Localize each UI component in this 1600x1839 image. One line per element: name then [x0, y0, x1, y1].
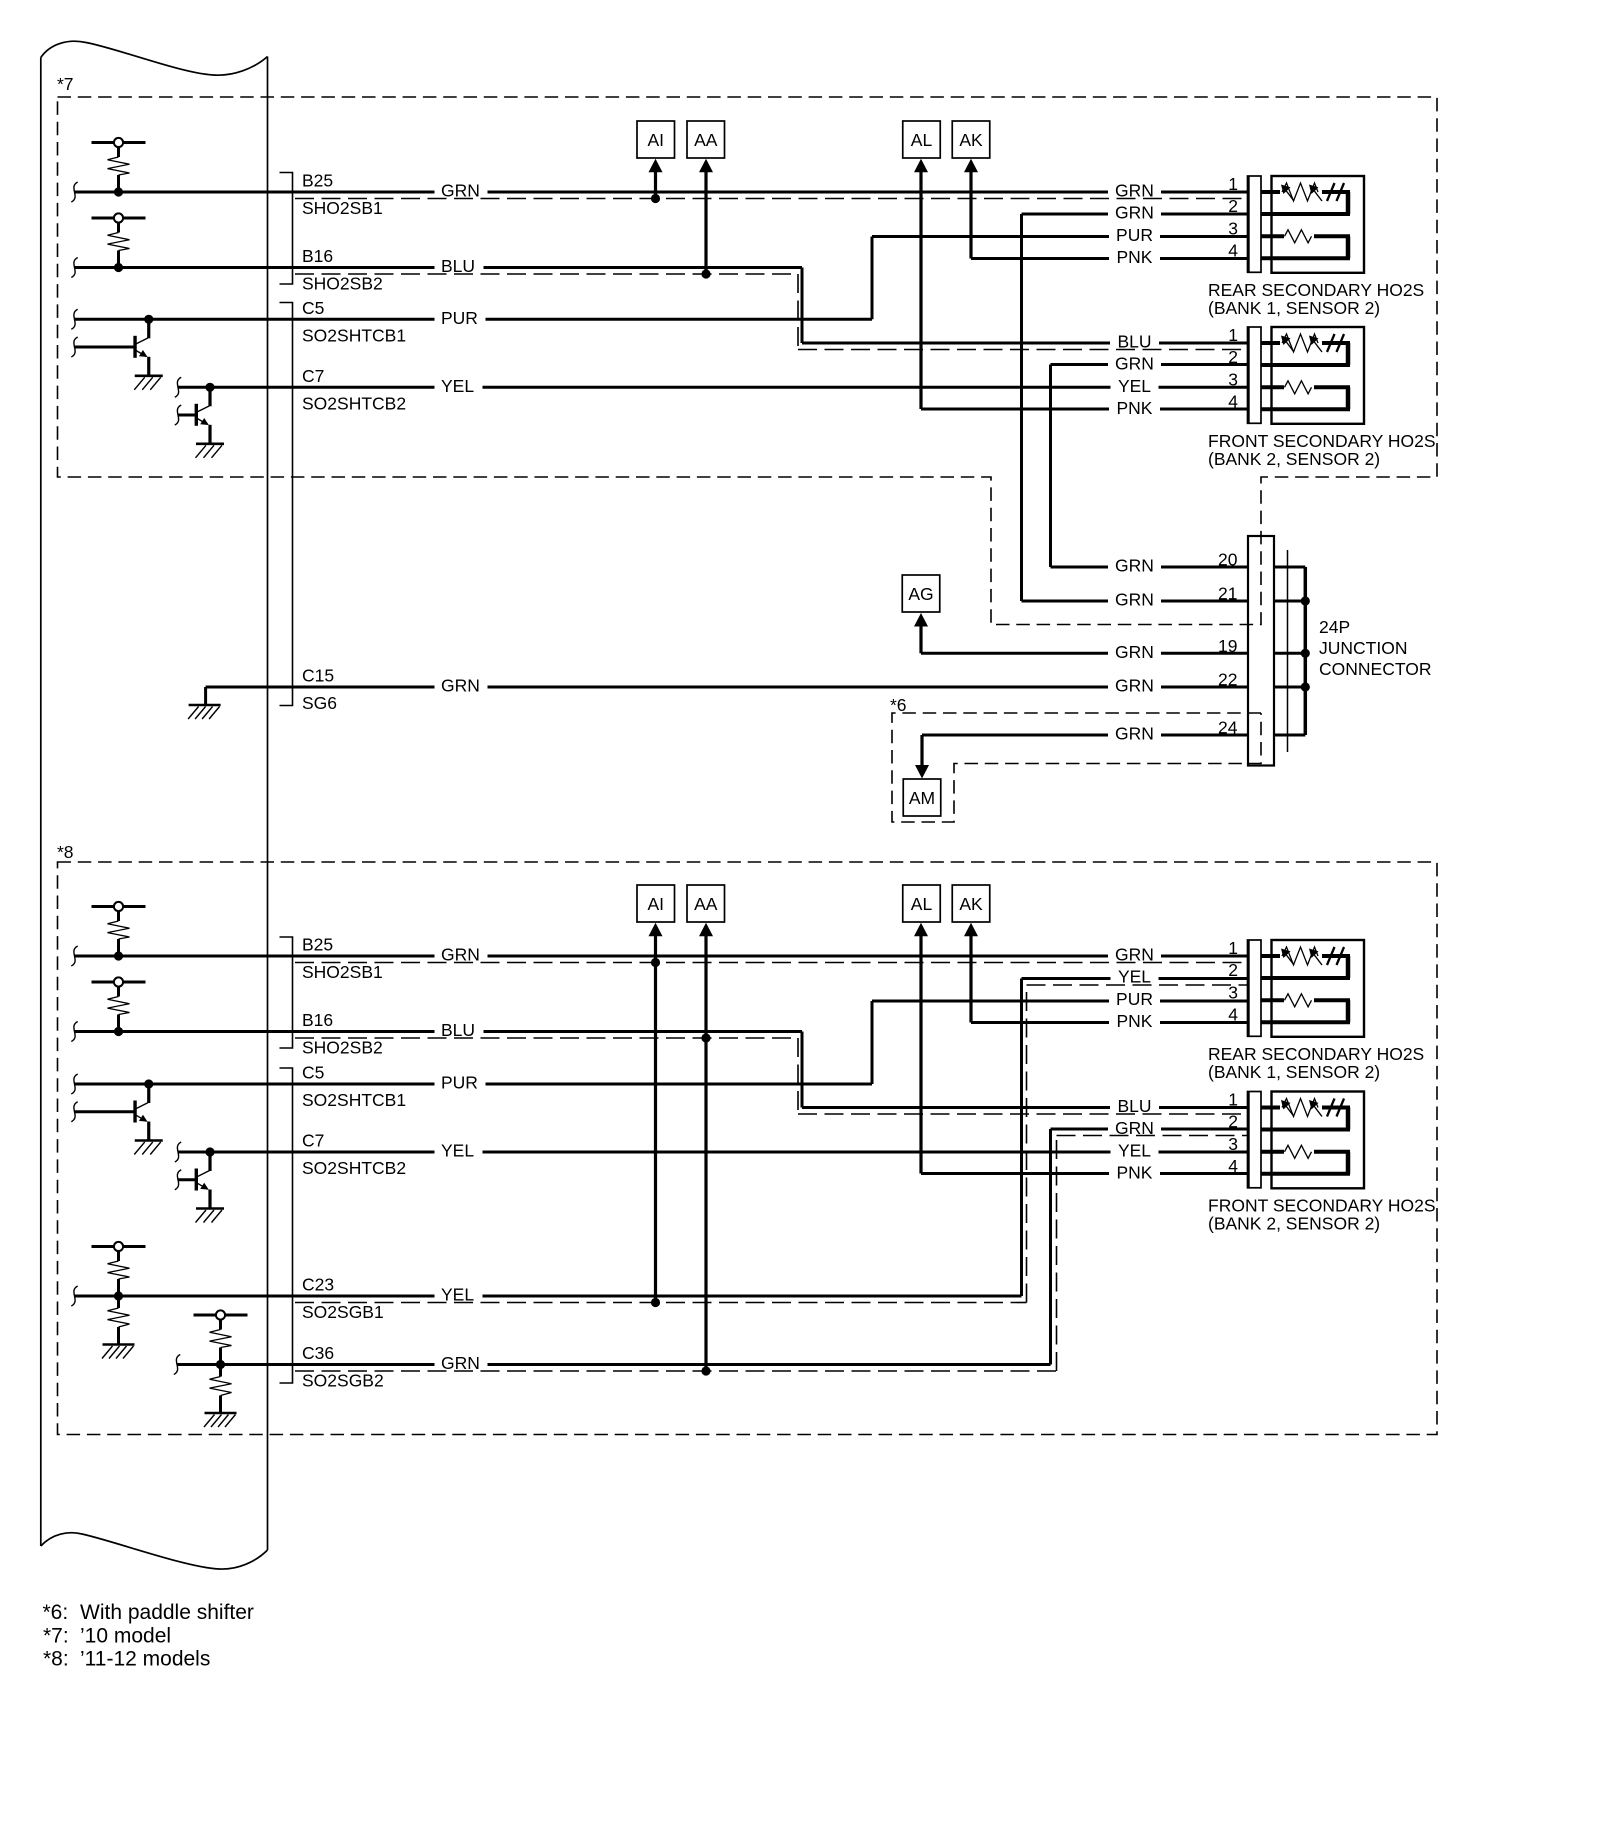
arrow AI from GRN shield: [649, 159, 663, 203]
svg-text:PNK: PNK: [1117, 1162, 1153, 1182]
svg-text:PUR: PUR: [441, 1073, 478, 1093]
footnote *7: [43, 1625, 171, 1648]
wire rear HO2S pin2 GRN to junction pin 21: [1022, 214, 1248, 601]
24P junction connector body: [1248, 536, 1288, 766]
svg-text:With paddle shifter: With paddle shifter: [80, 1601, 254, 1624]
svg-text:YEL: YEL: [441, 1141, 474, 1161]
svg-text:4: 4: [1228, 1156, 1238, 1176]
svg-text:SHO2SB1: SHO2SB1: [302, 198, 383, 218]
arrow AG from junction pin 19: [914, 613, 928, 653]
svg-text:24: 24: [1218, 718, 1238, 738]
pin B25 / SHO2SB1 *8: [302, 935, 383, 983]
svg-text:SO2SHTCB2: SO2SHTCB2: [302, 1158, 406, 1178]
svg-text:2: 2: [1228, 1112, 1238, 1132]
svg-text:AA: AA: [694, 130, 718, 150]
svg-text:GRN: GRN: [1115, 676, 1154, 696]
front secondary HO2S (bank2 sensor2) '10: [1108, 325, 1436, 469]
svg-text:1: 1: [1228, 174, 1238, 194]
svg-text:PUR: PUR: [441, 308, 478, 328]
svg-text:(BANK 2, SENSOR 2): (BANK 2, SENSOR 2): [1208, 1213, 1380, 1233]
svg-text:YEL: YEL: [441, 1285, 474, 1305]
shield (dashed) of C23 YEL wire: [295, 985, 1247, 1303]
svg-text:YEL: YEL: [441, 376, 474, 396]
label PUR on C5 wire: [435, 308, 486, 328]
junction node pin22: [1301, 682, 1310, 691]
arrow box AI: [637, 121, 675, 158]
label GRN on B25 wire *8: [435, 945, 488, 965]
arrow AL from front HO2S pin4 PNK *8: [914, 923, 1247, 1174]
ECU connector bracket C *8: [280, 1068, 293, 1383]
svg-text:SO2SHTCB1: SO2SHTCB1: [302, 1090, 406, 1110]
pull-up/pull-down divider at C23: [92, 1242, 146, 1359]
svg-text:24P: 24P: [1319, 617, 1350, 637]
svg-text:BLU: BLU: [1117, 332, 1151, 352]
junction node pin19: [1301, 649, 1310, 658]
wire front HO2S pin2 GRN to junction pin 20: [1051, 365, 1248, 568]
wire break squiggle B25 *8: [71, 946, 77, 966]
pull-up resistor to B16 (SHO2SB2): [92, 213, 146, 272]
svg-text:BLU: BLU: [441, 1020, 475, 1040]
junction stub pin 19: [1274, 652, 1305, 655]
svg-text:C7: C7: [302, 1131, 324, 1151]
svg-text:SHO2SB1: SHO2SB1: [302, 962, 383, 982]
svg-text:GRN: GRN: [1115, 181, 1154, 201]
svg-text:GRN: GRN: [441, 1353, 480, 1373]
dashed box *7 ('10 model): [58, 97, 1438, 625]
svg-text:C5: C5: [302, 298, 324, 318]
footnote *8: [43, 1648, 210, 1671]
pin C36 / SO2SGB2: [302, 1343, 384, 1391]
svg-text:AL: AL: [911, 130, 933, 150]
junction node pin21: [1301, 596, 1310, 605]
arrow AL from front HO2S pin4 PNK: [914, 159, 1247, 409]
label *7: [57, 74, 74, 94]
svg-text:’11-12 models: ’11-12 models: [80, 1648, 210, 1671]
svg-text:YEL: YEL: [1118, 1140, 1151, 1160]
arrow AM from junction pin 24: [915, 735, 929, 779]
svg-text:AI: AI: [647, 130, 664, 150]
pull-up resistor to B16 *8: [92, 977, 146, 1036]
svg-text:4: 4: [1228, 241, 1238, 261]
svg-text:REAR SECONDARY HO2S: REAR SECONDARY HO2S: [1208, 1044, 1424, 1064]
arrow box AA *8: [687, 885, 725, 922]
label PUR on C5 wire *8: [435, 1073, 486, 1093]
svg-text:BLU: BLU: [1117, 1096, 1151, 1116]
svg-text:GRN: GRN: [1115, 945, 1154, 965]
wire C5 PUR *8: [75, 1001, 1248, 1084]
svg-text:AK: AK: [959, 130, 983, 150]
svg-text:YEL: YEL: [1118, 967, 1151, 987]
arrow box AG: [902, 575, 940, 612]
shield (dashed) of B16 BLU wire: [295, 274, 1247, 350]
svg-text:BLU: BLU: [441, 256, 475, 276]
svg-text:2: 2: [1228, 196, 1238, 216]
ECU connector bracket B (B25/B16): [280, 173, 293, 285]
pull-up resistor to B25 (SHO2SB1): [92, 138, 146, 197]
wire break squiggle B25: [71, 182, 77, 202]
svg-text:C15: C15: [302, 666, 334, 686]
rear secondary HO2S (bank1 sensor2) '10: [1108, 174, 1424, 318]
junction bus bar: [1304, 567, 1308, 735]
arrow box AA: [687, 121, 725, 158]
svg-text:CONNECTOR: CONNECTOR: [1319, 659, 1431, 679]
transistor Q3 (SO2SHTCB1 driver *8): [75, 1079, 163, 1154]
pin C23 / SO2SGB1: [302, 1275, 384, 1323]
arrow box AL *8: [903, 885, 941, 922]
ECU connector strip (torn edges): [41, 41, 268, 1569]
svg-text:2: 2: [1228, 347, 1238, 367]
junction stub pin 20: [1274, 566, 1305, 569]
svg-text:GRN: GRN: [1115, 203, 1154, 223]
arrow box AM: [903, 779, 941, 816]
arrow box AK *8: [952, 885, 990, 922]
wire C36 GRN from front HO2S pin2: [177, 1129, 1247, 1365]
shield (dashed) of B25 GRN wire *8: [295, 962, 1247, 964]
wire break squiggle C5 *8: [71, 1074, 77, 1094]
arrow AA from BLU shield: [699, 159, 713, 279]
svg-text:GRN: GRN: [441, 945, 480, 965]
arrow AK from rear HO2S pin4 PNK *8: [964, 923, 1247, 1023]
label GRN junction pin 22: [1108, 676, 1161, 696]
wire C5 PUR: [75, 237, 1248, 320]
svg-text:3: 3: [1228, 219, 1238, 239]
svg-text:SO2SHTCB2: SO2SHTCB2: [302, 393, 406, 413]
pin B16 / SHO2SB2: [302, 246, 383, 294]
svg-text:B25: B25: [302, 935, 333, 955]
junction pin numbers: [1218, 550, 1238, 738]
pin B25 / SHO2SB1: [302, 171, 383, 219]
pull-up/pull-down divider at C36: [194, 1310, 248, 1427]
wire break squiggle Q1 base: [71, 337, 77, 357]
label YEL on C23 wire: [435, 1285, 483, 1305]
svg-text:SO2SGB1: SO2SGB1: [302, 1302, 384, 1322]
svg-text:19: 19: [1218, 636, 1237, 656]
svg-text:(BANK 1, SENSOR 2): (BANK 1, SENSOR 2): [1208, 298, 1380, 318]
svg-text:C23: C23: [302, 1275, 334, 1295]
wire B25 GRN to rear HO2S pin1 *8: [75, 955, 1248, 958]
svg-text:SHO2SB2: SHO2SB2: [302, 1038, 383, 1058]
label GRN junction pin 24: [1108, 724, 1161, 744]
wire break squiggle C23: [71, 1286, 77, 1306]
svg-text:*6: *6: [890, 695, 907, 715]
wire break squiggle Q2 base: [175, 405, 181, 425]
wire B25 GRN to rear HO2S pin 1: [75, 191, 1248, 194]
svg-text:GRN: GRN: [1115, 724, 1154, 744]
wire junction pin 24 GRN to AM: [922, 734, 1247, 737]
label YEL on C7 wire *8: [435, 1141, 483, 1161]
svg-text:REAR SECONDARY HO2S: REAR SECONDARY HO2S: [1208, 280, 1424, 300]
arrow box AK: [952, 121, 990, 158]
svg-text:4: 4: [1228, 1005, 1238, 1025]
shield (dashed) of B16 BLU wire *8: [295, 1038, 1247, 1114]
footnote *6: [43, 1601, 254, 1624]
wire break squiggle C7 collector: [175, 377, 181, 397]
svg-text:GRN: GRN: [441, 181, 480, 201]
svg-text:B16: B16: [302, 1010, 333, 1030]
svg-text:AL: AL: [911, 894, 933, 914]
wire C15 GRN to junction pin 22: [206, 686, 1247, 689]
svg-text:AI: AI: [647, 894, 664, 914]
arrow box AL: [903, 121, 941, 158]
junction stub pin 21: [1274, 600, 1305, 603]
svg-text:C5: C5: [302, 1063, 324, 1083]
pin C7 / SO2SHTCB2: [302, 366, 406, 414]
svg-text:AK: AK: [959, 894, 983, 914]
wire C7 YEL to front HO2S pin 3: [178, 386, 1247, 389]
svg-text:PNK: PNK: [1117, 1011, 1153, 1031]
label BLU on B16 wire *8: [435, 1020, 484, 1040]
svg-text:GRN: GRN: [441, 676, 480, 696]
arrow box AI *8: [637, 885, 675, 922]
wire B16 BLU: [75, 268, 1248, 344]
svg-text:PUR: PUR: [1116, 989, 1153, 1009]
label GRN junction pin 20: [1108, 556, 1161, 576]
pin C7 / SO2SHTCB2 *8: [302, 1131, 406, 1179]
svg-text:*8: *8: [57, 842, 74, 862]
svg-text:3: 3: [1228, 983, 1238, 1003]
svg-text:1: 1: [1228, 325, 1238, 345]
label GRN on B25 wire: [435, 181, 488, 201]
label GRN on C15 wire: [435, 676, 488, 696]
svg-text:FRONT SECONDARY HO2S: FRONT SECONDARY HO2S: [1208, 431, 1436, 451]
transistor Q1 (SO2SHTCB1 driver): [75, 315, 163, 390]
arrow AA shield link *8: [699, 923, 713, 1376]
wire C7 YEL to front HO2S pin3 *8: [178, 1151, 1247, 1154]
svg-text:PNK: PNK: [1117, 247, 1153, 267]
svg-text:YEL: YEL: [1118, 376, 1151, 396]
svg-text:SG6: SG6: [302, 693, 337, 713]
svg-text:C7: C7: [302, 366, 324, 386]
svg-text:C36: C36: [302, 1343, 334, 1363]
label YEL on C7 wire: [435, 376, 483, 396]
label GRN on C36 wire: [435, 1353, 488, 1373]
svg-text:*7:: *7:: [43, 1625, 69, 1648]
junction stub pin 24: [1274, 734, 1305, 737]
svg-text:AG: AG: [908, 584, 933, 604]
pin C15 / SG6: [302, 666, 337, 714]
svg-text:JUNCTION: JUNCTION: [1319, 638, 1407, 658]
rear secondary HO2S (bank1 sensor2) '11-12: [1108, 938, 1424, 1082]
ECU connector bracket B *8: [280, 937, 293, 1048]
dashed box *8 ('11-12 models): [58, 862, 1438, 1435]
svg-text:*7: *7: [57, 74, 74, 94]
arrow AK from rear HO2S pin4 PNK: [964, 159, 1247, 259]
svg-text:SHO2SB2: SHO2SB2: [302, 274, 383, 294]
label *6: [890, 695, 907, 715]
svg-text:1: 1: [1228, 938, 1238, 958]
svg-text:SO2SHTCB1: SO2SHTCB1: [302, 325, 406, 345]
svg-text:B25: B25: [302, 171, 333, 191]
svg-text:2: 2: [1228, 960, 1238, 980]
wire B16 BLU *8: [75, 1032, 1248, 1108]
svg-text:*8:: *8:: [43, 1648, 69, 1671]
svg-text:’10 model: ’10 model: [80, 1625, 171, 1648]
wire break squiggle C5 collector: [71, 309, 77, 329]
svg-text:GRN: GRN: [1115, 1118, 1154, 1138]
svg-text:B16: B16: [302, 246, 333, 266]
pin C5 / SO2SHTCB1 *8: [302, 1063, 406, 1111]
svg-text:3: 3: [1228, 1134, 1238, 1154]
svg-text:FRONT SECONDARY HO2S: FRONT SECONDARY HO2S: [1208, 1195, 1436, 1215]
dashed box *6 (with paddle shifter): [892, 713, 1261, 822]
transistor Q2 (SO2SHTCB2 driver): [178, 383, 224, 458]
svg-text:(BANK 1, SENSOR 2): (BANK 1, SENSOR 2): [1208, 1062, 1380, 1082]
svg-text:(BANK 2, SENSOR 2): (BANK 2, SENSOR 2): [1208, 449, 1380, 469]
wire break squiggle Q4 base: [175, 1170, 181, 1190]
svg-text:GRN: GRN: [1115, 642, 1154, 662]
arrow AI shield link *8: [649, 923, 663, 1307]
svg-text:SO2SGB2: SO2SGB2: [302, 1371, 384, 1391]
wire break squiggle B16 *8: [71, 1022, 77, 1042]
ECU connector bracket C (C5..C15): [280, 303, 293, 706]
wire break squiggle Q3 base: [71, 1102, 77, 1122]
svg-text:4: 4: [1228, 392, 1238, 412]
svg-text:GRN: GRN: [1115, 354, 1154, 374]
wire break squiggle B16: [71, 258, 77, 278]
svg-text:PNK: PNK: [1117, 398, 1153, 418]
svg-text:21: 21: [1218, 584, 1237, 604]
junction stub pin 22: [1274, 686, 1305, 689]
svg-text:1: 1: [1228, 1090, 1238, 1110]
svg-text:20: 20: [1218, 550, 1238, 570]
pin B16 / SHO2SB2 *8: [302, 1010, 383, 1058]
label BLU on B16 wire: [435, 256, 484, 276]
shield (dashed) of B25 GRN wire: [295, 198, 1247, 200]
wire junction pin 19 GRN from AG: [921, 652, 1247, 655]
svg-text:GRN: GRN: [1115, 556, 1154, 576]
pull-up resistor to B25 *8: [92, 902, 146, 961]
label *8: [57, 842, 74, 862]
wire break squiggle C36: [174, 1355, 180, 1375]
front secondary HO2S (bank2 sensor2) '11-12: [1108, 1090, 1436, 1234]
svg-text:22: 22: [1218, 670, 1237, 690]
wire break squiggle C7 *8: [175, 1142, 181, 1162]
label GRN junction pin 19: [1108, 642, 1161, 662]
svg-text:*6:: *6:: [43, 1601, 69, 1624]
svg-text:PUR: PUR: [1116, 225, 1153, 245]
pin C5 / SO2SHTCB1: [302, 298, 406, 346]
caption 24P JUNCTION CONNECTOR: [1319, 617, 1431, 679]
shield (dashed) of C36 GRN wire: [295, 1136, 1247, 1372]
svg-text:GRN: GRN: [1115, 590, 1154, 610]
ground at SG6 pin C15: [188, 687, 221, 719]
svg-text:AA: AA: [694, 894, 718, 914]
wire C23 YEL from rear HO2S pin2: [75, 979, 1248, 1297]
svg-text:AM: AM: [909, 788, 935, 808]
svg-text:3: 3: [1228, 370, 1238, 390]
label GRN junction pin 21: [1108, 590, 1161, 610]
transistor Q4 (SO2SHTCB2 driver *8): [178, 1147, 224, 1222]
